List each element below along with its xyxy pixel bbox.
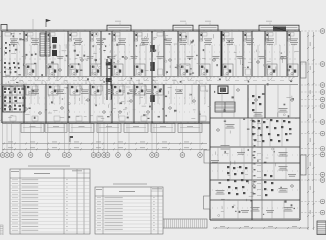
- grid bubbles bottom row: [0, 124, 202, 157]
- kitchen counters: [25, 33, 291, 41]
- shaft column x152: [150, 31, 155, 110]
- right side balconies: [301, 62, 307, 175]
- right wing labels: [216, 108, 293, 211]
- shaft box in top-right bay: [273, 27, 286, 32]
- elevator shaft: [218, 86, 228, 94]
- entrance stair: [163, 219, 207, 228]
- furniture upper rooms: [5, 33, 294, 76]
- B datum mark: [70, 136, 73, 142]
- corridor walls: [2, 76, 298, 84]
- stairwell A: [40, 33, 50, 56]
- door arcs rooms: [24, 64, 267, 68]
- wall shadow lines: [23, 33, 289, 121]
- schedule table 1: [10, 166, 90, 234]
- bathrooms lower side: [26, 84, 163, 95]
- left service core: [3, 86, 25, 112]
- room labels upper: [10, 39, 298, 59]
- extra wing labels: [211, 152, 296, 213]
- corner mark: [0, 225, 3, 235]
- left exterior wall: [1, 31, 3, 123]
- corridor door jambs: [6, 76, 294, 84]
- balcony marks: [24, 124, 199, 133]
- right wing bottom dimension: [213, 226, 308, 229]
- furniture lower rooms: [10, 86, 206, 121]
- thick wall x221: [221, 31, 223, 76]
- window ticks bottom: [6, 122, 202, 123]
- balconies along bottom: [21, 124, 202, 133]
- bottom-right stair block: [317, 221, 326, 235]
- schedule table 2: [95, 184, 163, 234]
- right wing inner walls: [210, 85, 300, 220]
- bottom dimension lines: [2, 142, 207, 151]
- interior partitions upper: [4, 31, 298, 76]
- stairwell B: [215, 102, 235, 112]
- left edge dimension: [0, 31, 2, 123]
- kitchen line: [4, 58, 298, 60]
- building exterior top wall and bays: [1, 25, 300, 32]
- room labels lower: [31, 90, 183, 94]
- window ticks top: [8, 30, 295, 31]
- wing left wall boxes: [204, 150, 211, 209]
- symbol circles: [8, 57, 294, 188]
- utility blocks x52: [52, 37, 57, 56]
- interior partitions lower: [4, 84, 208, 112]
- right dimension lines: [307, 32, 314, 230]
- door arcs corridor: [13, 76, 293, 84]
- leftmost unit fixtures: [4, 42, 20, 73]
- axis lines: [20, 33, 200, 121]
- section flag marker: [46, 19, 51, 27]
- wing corridor marks: [254, 121, 262, 196]
- party walls upper: [24, 31, 287, 76]
- shaft wall mid: [106, 59, 112, 100]
- bottom exterior wall left wing: [2, 122, 210, 123]
- grid bubbles right column: [301, 29, 325, 215]
- corridor dashes: [10, 79, 293, 81]
- bathrooms upper side: [26, 64, 298, 76]
- right wing fixtures: [227, 95, 291, 196]
- top margin marks: [33, 19, 272, 30]
- party walls lower: [24, 84, 199, 123]
- scattered furniture texture: [4, 33, 298, 217]
- right wing exterior walls: [210, 31, 300, 220]
